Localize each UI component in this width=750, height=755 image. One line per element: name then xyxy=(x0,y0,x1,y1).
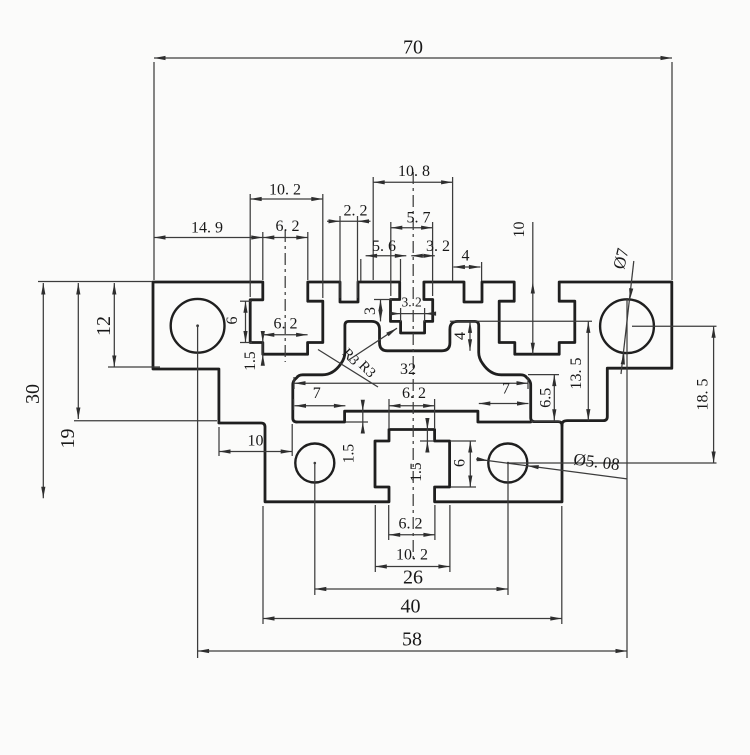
extension stub for dim 10 xyxy=(532,222,534,282)
D5.08 centre row extended to 18.5 dim xyxy=(508,462,717,464)
svg-text:3: 3 xyxy=(362,307,379,315)
svg-text:70: 70 xyxy=(403,37,423,59)
leader D5.08 xyxy=(476,459,627,479)
dim 70 overall width xyxy=(153,62,155,280)
leader R3 lower xyxy=(348,328,397,360)
svg-text:6.5: 6.5 xyxy=(537,388,554,408)
dim 4 top xyxy=(481,262,483,281)
svg-text:14. 9: 14. 9 xyxy=(191,220,223,237)
dim 58 xyxy=(198,650,627,652)
left slot axis xyxy=(284,230,286,362)
svg-text:26: 26 xyxy=(403,567,423,589)
dim 1.5 left slot bottom well xyxy=(262,332,264,364)
dim 6 bottom slot cavity xyxy=(450,440,476,442)
dim 19 xyxy=(74,420,217,422)
dim 12 xyxy=(108,366,160,368)
dim 10 bottom-left step xyxy=(218,427,220,456)
svg-text:32: 32 xyxy=(400,361,416,378)
dim 18.5 xyxy=(713,326,715,463)
dim 14.9 xyxy=(262,232,264,280)
dim 13.5 xyxy=(587,321,589,420)
dim 6.2 bottom opening xyxy=(388,505,390,540)
dim 32 between legs xyxy=(293,377,295,389)
dim 3 tab height xyxy=(374,299,392,301)
leader D7 xyxy=(621,261,634,374)
part outline: aluminium profile cross-section (outer boundary, top T-slots, centre hammer tab, bottom T-slot) xyxy=(153,282,672,502)
svg-text:58: 58 xyxy=(402,629,422,651)
hole D5.08 left xyxy=(295,444,334,483)
dim 40 body width xyxy=(262,506,264,624)
svg-text:6. 2: 6. 2 xyxy=(399,516,423,533)
right D7 centre row extended to 18.5 dim xyxy=(632,325,717,327)
right D5.08 centreline / 26 ext xyxy=(507,463,509,595)
dim 10.2 top slot cavity xyxy=(249,194,251,297)
dim 4 valley wall xyxy=(469,321,471,350)
svg-text:1.5: 1.5 xyxy=(242,351,259,371)
svg-text:10: 10 xyxy=(248,432,264,449)
svg-text:6. 2: 6. 2 xyxy=(276,218,300,235)
svg-text:1.5: 1.5 xyxy=(341,444,358,464)
svg-text:1.5: 1.5 xyxy=(408,462,425,482)
dim 26 hole spacing xyxy=(315,588,508,590)
dim 1.5 bottom slot well height xyxy=(426,422,428,450)
svg-text:3. 2: 3. 2 xyxy=(401,295,421,310)
svg-text:30: 30 xyxy=(22,384,44,404)
dim 7 left xyxy=(293,399,295,410)
svg-text:5. 7: 5. 7 xyxy=(407,210,431,227)
dim 1.5 shelf step xyxy=(362,404,364,429)
svg-text:10: 10 xyxy=(511,222,528,238)
centre valley / middle window contour with R3 fillets, ledges and shelf xyxy=(293,321,562,425)
svg-text:13. 5: 13. 5 xyxy=(568,358,585,390)
dim 10.8 xyxy=(372,177,374,280)
left D5.08 centreline / 26 ext xyxy=(314,463,316,595)
svg-text:40: 40 xyxy=(401,596,421,618)
svg-text:7: 7 xyxy=(313,385,321,402)
svg-text:18. 5: 18. 5 xyxy=(694,379,711,411)
hole D5.08 right xyxy=(488,444,527,483)
svg-text:10. 2: 10. 2 xyxy=(269,182,301,199)
svg-text:12: 12 xyxy=(93,316,115,336)
svg-text:2. 2: 2. 2 xyxy=(344,203,368,220)
svg-text:19: 19 xyxy=(57,429,79,449)
dim 6.5 xyxy=(528,374,559,376)
dim 30 overall height xyxy=(42,283,44,498)
svg-text:10. 8: 10. 8 xyxy=(398,163,430,180)
dim 6.2 left slot well xyxy=(263,334,308,336)
right D7 hole centreline / 58 ext xyxy=(626,298,628,658)
leader R3 upper xyxy=(318,350,378,388)
shelf between legs with 1.5 steps xyxy=(297,411,531,422)
dim 3.2 tab tip width (inner) xyxy=(400,308,402,322)
dim 10 centre section height xyxy=(532,282,534,354)
dim 10.2 bottom cavity xyxy=(374,505,376,572)
svg-text:6: 6 xyxy=(452,459,469,467)
centre dots xyxy=(196,324,199,327)
svg-text:3. 2: 3. 2 xyxy=(426,238,450,255)
dim 6 left slot cavity xyxy=(240,300,252,302)
dim 2.2 notch xyxy=(339,216,341,298)
svg-text:10. 2: 10. 2 xyxy=(396,547,428,564)
hole D7 left xyxy=(171,299,225,353)
centre axis xyxy=(412,172,414,560)
svg-text:6. 2: 6. 2 xyxy=(402,385,426,402)
dim 5.7 tab cavity xyxy=(390,222,392,296)
svg-text:5. 6: 5. 6 xyxy=(372,238,396,255)
svg-text:4: 4 xyxy=(462,248,470,265)
svg-text:6: 6 xyxy=(224,317,241,325)
left D7 hole centreline / 58 ext xyxy=(197,325,199,658)
hole D7 right xyxy=(600,299,654,353)
svg-text:6. 2: 6. 2 xyxy=(274,315,298,332)
dim 3.2 top xyxy=(411,255,435,257)
dim 6.2 top slot neck xyxy=(307,232,309,280)
dim 5.6 xyxy=(360,259,362,281)
svg-text:7: 7 xyxy=(502,381,510,398)
dim 7 right xyxy=(479,403,529,405)
dim 6.2 bottom slot well xyxy=(388,399,390,428)
svg-text:4: 4 xyxy=(452,332,469,340)
13.5 top extension from valley underside xyxy=(450,320,592,322)
shared top extension for 30/19/12 xyxy=(38,281,152,283)
